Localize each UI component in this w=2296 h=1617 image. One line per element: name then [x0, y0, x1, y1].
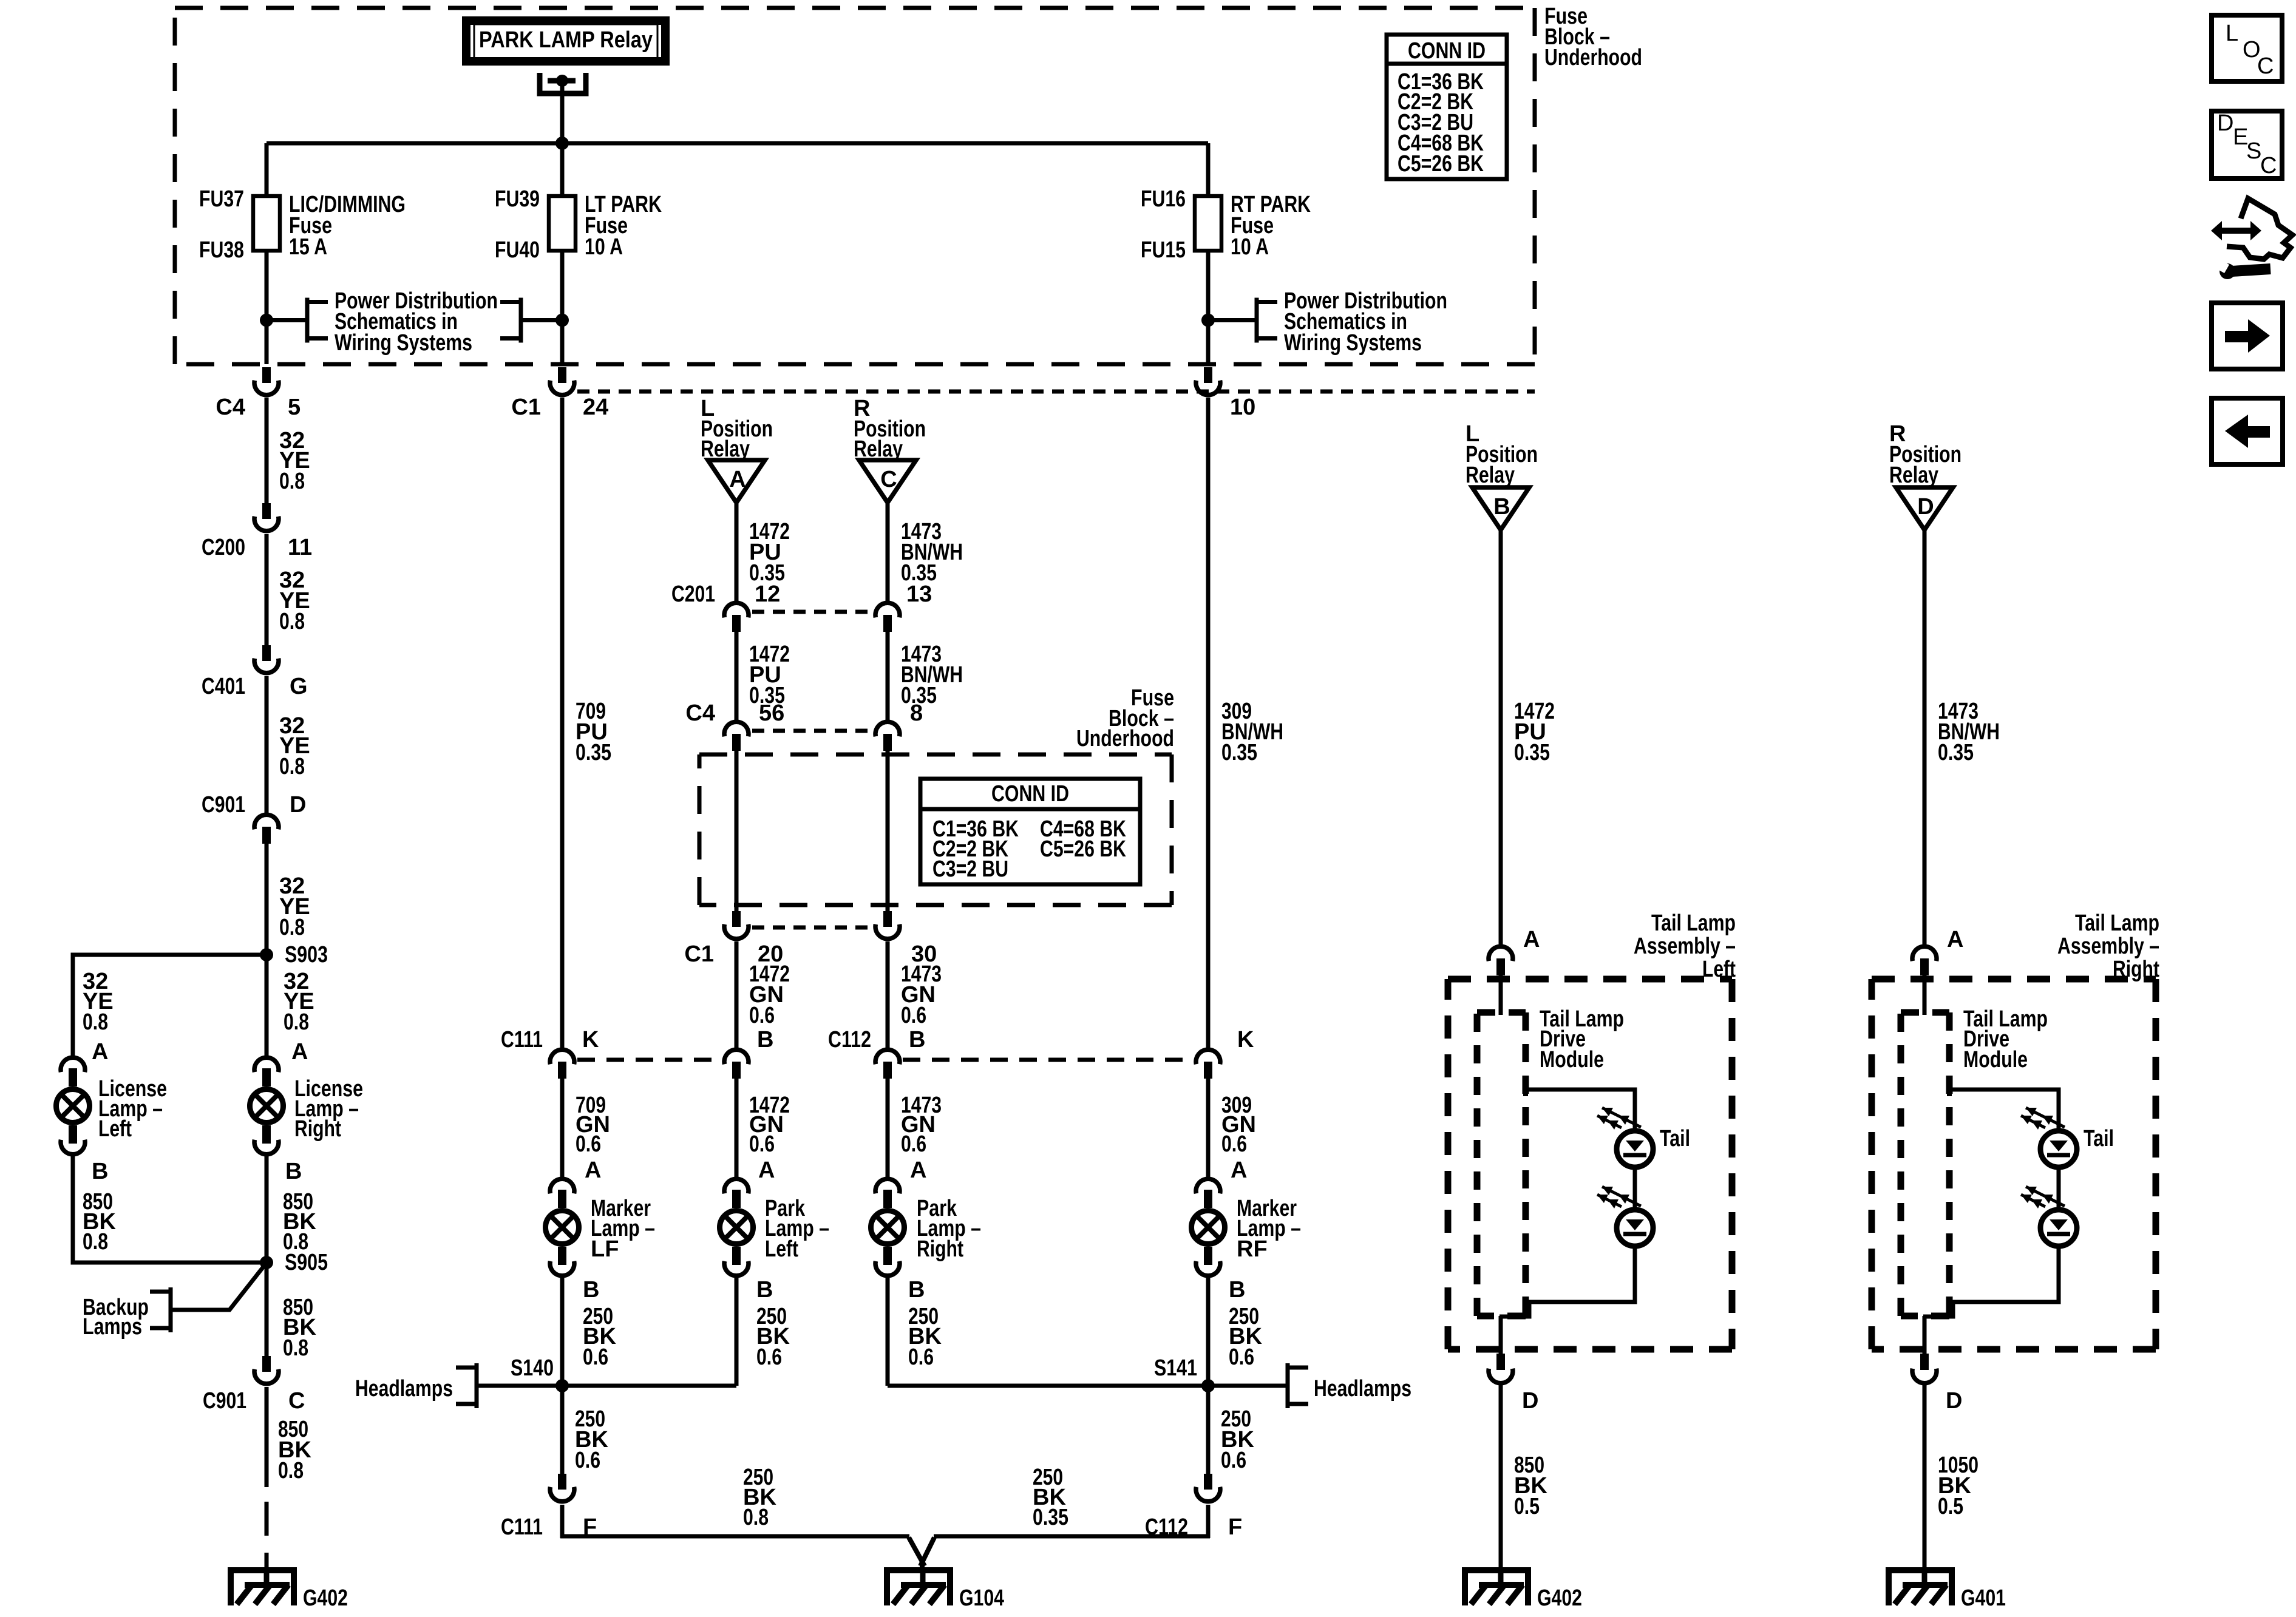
relay terminal B triangle: [1472, 487, 1529, 530]
svg-text:C4: C4: [216, 395, 245, 420]
label wire 1472 PU 0.35 (b): [749, 642, 790, 708]
svg-text:CONN ID: CONN ID: [991, 781, 1069, 807]
label Headlamps (right): [1314, 1376, 1411, 1402]
label wire 250 BK 0.8: [743, 1465, 776, 1530]
icon forward arrow box: [2212, 303, 2283, 369]
label wire 32 YE 0.8 (2): [279, 568, 310, 634]
ground G402 left: [228, 1567, 348, 1611]
label pin D tail lamp (left): [1522, 1388, 1538, 1414]
fuse block underhood boundary 2 (dashed box): [699, 754, 1172, 905]
svg-text:C200: C200: [202, 535, 245, 560]
wire S141 line: [888, 1384, 1288, 1388]
label pin K (C111): [582, 1027, 599, 1053]
label pin 8: [910, 700, 923, 726]
svg-text:FU40: FU40: [495, 237, 540, 263]
wire marker RF to S141: [1206, 1278, 1211, 1386]
wire module to pin D (left): [1499, 1316, 1503, 1354]
svg-text:D: D: [2217, 110, 2233, 136]
svg-text:C5=26 BK: C5=26 BK: [1398, 151, 1484, 177]
label pin 20: [758, 941, 783, 967]
svg-text:FU16: FU16: [1141, 186, 1186, 212]
label pin 24: [583, 395, 608, 420]
label C4 (mid): [685, 700, 715, 726]
lamp License Lamp - Left: [56, 1057, 90, 1154]
label C201: [671, 581, 715, 607]
wire A into module (right): [1923, 975, 1927, 1015]
label FU38: [199, 237, 244, 263]
wire module output to LEDs (left): [1526, 1083, 1635, 1131]
svg-text:24: 24: [583, 395, 608, 420]
label C401: [202, 674, 245, 699]
svg-text:0.6: 0.6: [749, 1003, 775, 1028]
svg-text:11: 11: [288, 535, 312, 560]
label C112 (F): [1145, 1514, 1188, 1540]
label pin B (C112): [909, 1027, 925, 1053]
label pin B license right: [285, 1159, 302, 1184]
svg-text:C111: C111: [501, 1027, 543, 1053]
svg-text:0.8: 0.8: [279, 469, 305, 494]
label wire 850 BK 0.5: [1514, 1453, 1547, 1519]
wire C200-11 to C401-G: [265, 534, 269, 645]
label FU16: [1141, 186, 1186, 212]
label pin A park left: [758, 1158, 775, 1183]
svg-text:S140: S140: [511, 1355, 554, 1381]
svg-text:B: B: [1229, 1277, 1245, 1303]
label wire 32 YE 0.8 (1): [279, 428, 310, 494]
label wire 309 BN/WH 0.35: [1221, 699, 1283, 765]
svg-text:Lamps: Lamps: [83, 1314, 142, 1340]
label pin 13: [906, 581, 932, 607]
svg-text:0.8: 0.8: [283, 1335, 308, 1361]
wire park left to S140 line: [735, 1278, 739, 1386]
svg-text:0.35: 0.35: [1221, 740, 1257, 765]
svg-text:C: C: [880, 467, 897, 492]
svg-text:A: A: [910, 1158, 926, 1183]
svg-text:C5=26 BK: C5=26 BK: [1040, 836, 1126, 862]
wire bracket to FU40 wire: [521, 318, 562, 322]
svg-text:Module: Module: [1540, 1047, 1604, 1073]
label C112: [828, 1027, 871, 1053]
label wire 709 PU 0.35: [576, 699, 611, 765]
lamp Park Lamp - Left: [720, 1179, 753, 1276]
bracket power distribution left-close: [500, 298, 521, 343]
fuse FU39/FU40 LT PARK: [549, 196, 576, 251]
label Fuse Block - Underhood (mid): [1076, 685, 1174, 751]
label LT PARK Fuse 10 A: [585, 192, 662, 260]
svg-text:0.6: 0.6: [575, 1448, 600, 1473]
label pin B marker LF: [583, 1277, 599, 1303]
dashed jumper C4: [752, 729, 877, 733]
svg-text:10 A: 10 A: [1231, 234, 1269, 260]
svg-text:D: D: [1946, 1388, 1962, 1414]
wire marker LF to S140: [560, 1278, 565, 1386]
wire C901-D to S903: [265, 844, 269, 955]
junction S140: [555, 1379, 569, 1392]
label Park Lamp - Left: [765, 1196, 829, 1262]
label wire 250 BK 0.35: [1033, 1465, 1068, 1530]
label Park Lamp - Right: [917, 1196, 981, 1262]
connector C112 pin K: [1196, 1049, 1220, 1079]
connector C1 pin 10: [1196, 367, 1220, 395]
label Tail Lamp Drive Module (left): [1540, 1006, 1624, 1073]
icon back arrow box: [2212, 398, 2283, 464]
wire A into module (left): [1499, 975, 1503, 1015]
label pin A marker RF: [1231, 1158, 1247, 1183]
label FU37: [199, 186, 244, 212]
label R Position Relay (C): [854, 396, 926, 462]
ground G104: [884, 1567, 1004, 1611]
connector C112 pin F: [1196, 1474, 1220, 1502]
svg-text:0.8: 0.8: [279, 915, 305, 940]
svg-text:G: G: [290, 674, 308, 699]
note Power Distribution Schematics (left): [335, 288, 498, 356]
svg-text:S903: S903: [285, 942, 328, 968]
label wire 250 BK 0.6 (g1): [575, 1406, 608, 1473]
junction S-FU15: [1201, 314, 1215, 327]
label RT PARK Fuse 10 A: [1231, 192, 1311, 260]
label S140: [511, 1355, 554, 1381]
svg-text:Wiring Systems: Wiring Systems: [335, 330, 472, 356]
svg-text:G401: G401: [1961, 1585, 2006, 1611]
svg-text:C1: C1: [684, 941, 714, 967]
wire C201-12 to C4-56: [735, 632, 739, 720]
label pin B marker RF: [1229, 1277, 1245, 1303]
wire pin10 to C112-K: [1206, 398, 1211, 1048]
label wire 850 BK 0.8 (g402): [278, 1417, 311, 1483]
label pin B park left: [756, 1277, 773, 1303]
label wire 850 BK 0.8 (left): [83, 1189, 116, 1255]
fuse FU16/FU15 RT PARK: [1195, 196, 1221, 251]
wire B to tail lamp left: [1499, 530, 1503, 944]
svg-text:0.8: 0.8: [279, 609, 305, 634]
svg-text:Tail: Tail: [2084, 1126, 2114, 1151]
label pin B park right: [908, 1277, 925, 1303]
label Tail (right): [2084, 1126, 2114, 1151]
wire LED return (right): [1923, 1246, 2059, 1317]
svg-text:Tail Lamp: Tail Lamp: [1651, 910, 1736, 936]
svg-text:0.35: 0.35: [1514, 740, 1550, 765]
svg-text:S905: S905: [285, 1250, 328, 1275]
label FU39: [495, 186, 540, 212]
wire C111-B to park left: [735, 1079, 739, 1177]
wire C111-K to marker LF: [560, 1079, 565, 1177]
label Tail Lamp Assembly Left: [1634, 910, 1736, 982]
label S905: [285, 1250, 328, 1275]
svg-text:0.6: 0.6: [756, 1344, 782, 1370]
label wire 250 BK 0.6 (PL): [756, 1304, 790, 1370]
wire C401-G to C901-D: [265, 676, 269, 813]
svg-text:C4: C4: [685, 700, 715, 726]
svg-text:B: B: [583, 1277, 599, 1303]
label wire 1472 PU 0.35 (tail): [1514, 699, 1555, 765]
label License Lamp - Left: [98, 1076, 167, 1142]
connector C111 pin B: [724, 1049, 749, 1079]
label L Position Relay (B): [1466, 421, 1538, 488]
svg-text:D: D: [1917, 494, 1934, 520]
connector C201 pin 12: [724, 603, 749, 632]
junction bus-relay: [555, 137, 569, 150]
wire park right to S141 line: [886, 1278, 890, 1386]
connector C200 pin 11: [254, 503, 279, 531]
label Headlamps (left): [355, 1376, 453, 1402]
label pin 10: [1230, 395, 1255, 420]
svg-text:Underhood: Underhood: [1544, 45, 1642, 70]
wire to power distribution bracket right: [1208, 318, 1257, 322]
svg-text:0.8: 0.8: [279, 754, 305, 779]
label wire 1472 GN 0.6 (b): [749, 1093, 790, 1157]
junction S903: [260, 948, 273, 961]
svg-text:0.8: 0.8: [278, 1458, 304, 1483]
svg-text:Tail: Tail: [1660, 1126, 1690, 1151]
label Marker Lamp - LF: [591, 1196, 655, 1262]
svg-text:C: C: [2257, 53, 2274, 79]
svg-text:C201: C201: [671, 581, 715, 607]
connector C111 pin K: [550, 1049, 574, 1079]
svg-text:G104: G104: [959, 1585, 1004, 1611]
svg-text:0.5: 0.5: [1938, 1494, 1963, 1519]
wire LED1 to LED2 (right): [2057, 1167, 2061, 1210]
svg-text:F: F: [1228, 1514, 1242, 1540]
note Power Distribution Schematics (right): [1284, 288, 1447, 356]
wire C112-B to park right: [886, 1079, 890, 1177]
label Tail Lamp Assembly Right: [2057, 910, 2159, 982]
label C200: [202, 535, 245, 560]
label R Position Relay (D): [1889, 421, 1961, 488]
svg-text:56: 56: [759, 700, 784, 726]
svg-text:A: A: [1231, 1158, 1247, 1183]
svg-text:RF: RF: [1237, 1236, 1268, 1262]
label Marker Lamp - RF: [1237, 1196, 1301, 1262]
tail lamp drive module boundary (right): [1901, 1012, 1949, 1316]
label wire 1473 GN 0.6 (b): [901, 1093, 942, 1157]
svg-text:Underhood: Underhood: [1076, 726, 1174, 751]
label C901 (D): [202, 792, 245, 818]
svg-text:Wiring Systems: Wiring Systems: [1284, 330, 1422, 356]
label wire 1473 BN/WH 0.35 (c): [901, 519, 963, 586]
relay terminal D triangle: [1896, 487, 1953, 530]
wire C112-K to marker RF: [1206, 1079, 1211, 1177]
label pin A license right: [291, 1039, 308, 1065]
lamp License Lamp - Right: [250, 1057, 284, 1154]
label wire 250 BK 0.6 (PR): [908, 1304, 942, 1370]
wire D to ground (right): [1923, 1385, 1927, 1567]
connector C1 pin 30: [875, 911, 900, 939]
label wire 250 BK 0.6 (g2): [1221, 1406, 1254, 1473]
svg-text:0.6: 0.6: [908, 1344, 934, 1370]
svg-text:A: A: [1947, 927, 1963, 952]
wire headlamps bracket to S140: [477, 1384, 736, 1388]
label Fuse Block - Underhood (top): [1544, 4, 1642, 70]
svg-text:0.35: 0.35: [576, 740, 611, 765]
label S141: [1154, 1355, 1197, 1381]
label wire 32 YE 0.8 (4): [279, 873, 310, 940]
connector C1 pin 20: [724, 911, 749, 939]
label wire 1050 BK 0.5: [1938, 1453, 1978, 1519]
svg-text:A: A: [758, 1158, 775, 1183]
svg-text:Left: Left: [765, 1236, 798, 1262]
label C901 (C): [203, 1388, 246, 1414]
CONN ID table (fuse block): [1387, 35, 1507, 179]
svg-text:A: A: [291, 1039, 308, 1065]
connector C401 pin G: [254, 645, 279, 673]
label Tail Lamp Drive Module (right): [1963, 1006, 2048, 1073]
svg-text:C111: C111: [501, 1514, 543, 1540]
wire S140 to C111-F: [560, 1386, 565, 1474]
wire dashed to G402 left: [265, 1502, 269, 1570]
svg-text:B: B: [1493, 494, 1510, 520]
svg-text:10 A: 10 A: [585, 234, 623, 260]
wire license left to S905: [73, 1156, 267, 1263]
bracket backup lamps: [150, 1287, 171, 1332]
svg-text:10: 10: [1230, 395, 1255, 420]
label wire 850 BK 0.8 (s905): [283, 1295, 316, 1361]
svg-text:C1: C1: [511, 395, 541, 420]
svg-text:Headlamps: Headlamps: [355, 1376, 453, 1402]
connector C201 pin 13: [875, 603, 900, 632]
wire relay to bus: [560, 81, 565, 143]
bracket power distribution right: [1257, 298, 1277, 343]
icon part outline: [2227, 198, 2292, 259]
svg-text:0.8: 0.8: [284, 1009, 309, 1035]
svg-text:B: B: [909, 1027, 925, 1053]
svg-text:Left: Left: [98, 1116, 132, 1142]
svg-text:B: B: [756, 1277, 773, 1303]
lamp Park Lamp - Right: [871, 1179, 905, 1276]
wire license right to S905: [265, 1156, 269, 1263]
wire A to C201-12: [735, 503, 739, 601]
bracket headlamps right: [1288, 1363, 1308, 1408]
svg-text:Assembly –: Assembly –: [2057, 934, 2159, 959]
wire module to pin D (right): [1923, 1316, 1927, 1354]
label pin D tail lamp (right): [1946, 1388, 1962, 1414]
harness dashed line at relay connectors: [577, 390, 1535, 394]
relay terminal A triangle: [708, 460, 765, 503]
bracket headlamps left: [456, 1363, 477, 1408]
label pin A tail lamp (left): [1523, 927, 1540, 952]
label pin 56: [759, 700, 784, 726]
connector tail lamp pin A (right): [1912, 946, 1937, 975]
svg-text:5: 5: [288, 395, 301, 420]
wire LED1 to LED2 (left): [1633, 1167, 1637, 1210]
svg-text:LF: LF: [591, 1236, 619, 1262]
icon part-locator arrows: [2211, 221, 2261, 240]
svg-text:D: D: [1522, 1388, 1538, 1414]
svg-text:0.6: 0.6: [901, 1003, 926, 1028]
label pin A marker LF: [585, 1158, 601, 1183]
wire C201-13 to C4-8: [886, 632, 890, 720]
connector tail lamp pin D (right): [1912, 1354, 1937, 1383]
label pin G: [290, 674, 308, 699]
svg-text:D: D: [290, 792, 306, 818]
svg-text:0.6: 0.6: [1221, 1131, 1247, 1157]
svg-text:C901: C901: [202, 792, 245, 818]
svg-text:CONN ID: CONN ID: [1408, 38, 1486, 64]
junction S141: [1201, 1379, 1215, 1392]
wire C1-20 to C111-B: [735, 941, 739, 1048]
svg-text:12: 12: [755, 581, 780, 607]
label wire 1473 BN/WH 0.35 (tail): [1938, 699, 2000, 765]
relay terminal C triangle: [859, 460, 916, 503]
junction S-FU38: [260, 314, 273, 327]
svg-text:0.8: 0.8: [743, 1505, 769, 1530]
connector C4 pin 56: [724, 722, 749, 751]
label wire 309 GN 0.6: [1221, 1093, 1256, 1157]
wire backup lamps to S905: [171, 1264, 265, 1310]
icon wrench: [2215, 259, 2271, 279]
svg-text:C: C: [288, 1388, 305, 1414]
connector C4 pin 5: [254, 367, 279, 395]
label wire 1472 PU 0.35 (a): [749, 519, 790, 586]
svg-text:A: A: [585, 1158, 601, 1183]
svg-text:C901: C901: [203, 1388, 246, 1414]
svg-text:15 A: 15 A: [289, 234, 327, 260]
ground G401: [1886, 1567, 2006, 1611]
wire D to ground (left): [1499, 1385, 1503, 1567]
wire S903 branch left: [73, 955, 267, 1056]
junction S-FU40: [555, 314, 569, 327]
svg-text:0.8: 0.8: [83, 1229, 108, 1255]
label pin A park right: [910, 1158, 926, 1183]
label Tail (left): [1660, 1126, 1690, 1151]
label pin B license left: [92, 1159, 108, 1184]
svg-text:13: 13: [906, 581, 932, 607]
wire S903 to license right: [265, 955, 269, 1056]
svg-text:B: B: [285, 1159, 302, 1184]
svg-text:L: L: [2226, 21, 2238, 46]
ground G402 right: [1462, 1567, 1582, 1611]
dashed jumper C201: [752, 610, 877, 614]
wire LED return (left): [1500, 1246, 1635, 1317]
wire S141 to C112-F: [1206, 1386, 1211, 1474]
label wire 1473 GN 0.6 (a): [901, 961, 942, 1028]
lamp Marker Lamp - LF: [546, 1179, 579, 1276]
wire 56 through fuse block: [735, 751, 739, 911]
svg-text:B: B: [92, 1159, 108, 1184]
svg-text:0.6: 0.6: [583, 1344, 608, 1370]
label pin B (C111): [757, 1027, 773, 1053]
svg-text:C401: C401: [202, 674, 245, 699]
svg-text:Assembly –: Assembly –: [1634, 934, 1736, 959]
label wire 1473 BN/WH 0.35 (d): [901, 642, 963, 708]
tail lamp drive module boundary (left): [1477, 1012, 1526, 1316]
connector C901 pin C: [254, 1356, 279, 1384]
svg-text:0.6: 0.6: [749, 1131, 775, 1157]
svg-text:Relay: Relay: [1889, 463, 1938, 488]
svg-text:0.6: 0.6: [576, 1131, 601, 1157]
ground V lead: [909, 1537, 934, 1571]
label C111 (F): [501, 1514, 543, 1540]
label wire 32 YE 0.8 (right lamp): [284, 969, 314, 1035]
svg-text:S: S: [2246, 138, 2261, 164]
svg-text:G402: G402: [303, 1585, 348, 1611]
wire C111-F down: [560, 1505, 565, 1538]
svg-text:0.6: 0.6: [1229, 1344, 1254, 1370]
label License Lamp - Right: [294, 1076, 363, 1142]
wire bus to FU37: [265, 143, 269, 196]
fuse FU37/FU38 LIC/DIMMING: [253, 196, 280, 251]
svg-text:B: B: [757, 1027, 773, 1053]
wire C4-5 to C200-11: [265, 398, 269, 503]
label pin C (C901): [288, 1388, 305, 1414]
svg-text:0.6: 0.6: [1221, 1448, 1246, 1473]
label pin A license left: [92, 1039, 108, 1065]
bracket power distribution left-open: [307, 298, 328, 343]
connector tail lamp pin A (left): [1489, 946, 1513, 975]
svg-text:0.35: 0.35: [1033, 1505, 1068, 1530]
relay K9 PARK LAMP Relay box: [466, 21, 665, 61]
label wire 32 YE 0.8 (left lamp): [83, 969, 114, 1035]
svg-text:Headlamps: Headlamps: [1314, 1376, 1411, 1402]
